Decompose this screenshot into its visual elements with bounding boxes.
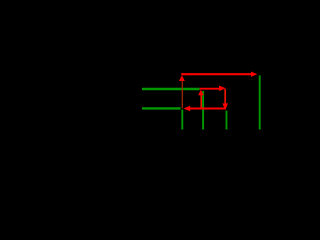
upper level line (green) — [142, 88, 200, 90]
loop bottom segment (red, left head) — [190, 108, 226, 110]
tick t4 (green, x=259.7) — [259, 75, 261, 129]
long period arrow (red, horizontal, right head) — [181, 73, 252, 75]
tick t1 (green, x=182) — [181, 110, 183, 130]
tick t2 (green, x=203) — [202, 91, 204, 130]
tall up arrow at t1 (shaft dark red, bright head) — [181, 81, 183, 109]
lower level line (green) — [142, 107, 181, 109]
tick t3 (green, x=226.5) — [226, 111, 228, 130]
loop right segment (down arrow at t3) — [224, 89, 226, 104]
loop left segment (small up arrow at t2) — [200, 95, 202, 108]
loop top segment (red, right head at corner) — [200, 88, 221, 90]
